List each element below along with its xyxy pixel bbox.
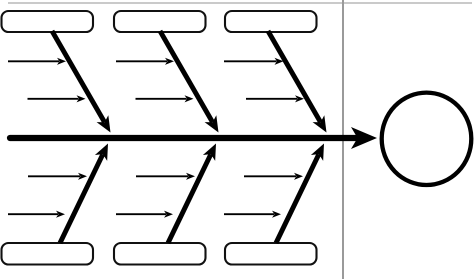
bone top 2 xyxy=(160,31,224,136)
small arrow top row A bone 1 xyxy=(8,58,66,65)
spine arrowhead xyxy=(351,127,377,149)
small arrow bottom row D bone 3 xyxy=(224,211,281,218)
small arrow top row A bone 3 xyxy=(224,58,284,65)
small arrow bottom row C bone 2 xyxy=(136,173,195,180)
vertical divider line xyxy=(342,0,344,279)
small arrow top row B bone 2 xyxy=(136,95,194,102)
small arrow bottom row C bone 1 xyxy=(28,173,87,180)
bottom box 3 xyxy=(225,243,317,265)
small arrow bottom row D bone 2 xyxy=(116,211,173,218)
small arrow bottom row C bone 3 xyxy=(244,173,303,180)
small arrow bottom row D bone 1 xyxy=(8,211,65,218)
top box 2 xyxy=(114,11,206,32)
bone bottom 2 xyxy=(168,141,222,243)
small arrow top row B bone 3 xyxy=(246,95,304,102)
small arrow top row B bone 1 xyxy=(28,95,86,102)
bone bottom 3 xyxy=(276,141,330,243)
bone bottom 1 xyxy=(60,141,114,243)
bottom box 2 xyxy=(114,243,206,265)
top box 3 xyxy=(225,11,317,32)
bone top 3 xyxy=(268,31,332,136)
small arrow top row A bone 2 xyxy=(116,58,174,65)
top border line xyxy=(8,2,472,4)
bone top 1 xyxy=(52,31,116,136)
effect circle xyxy=(382,93,472,185)
top box 1 xyxy=(2,11,94,32)
spine shaft xyxy=(10,135,357,141)
bottom box 1 xyxy=(2,243,94,265)
